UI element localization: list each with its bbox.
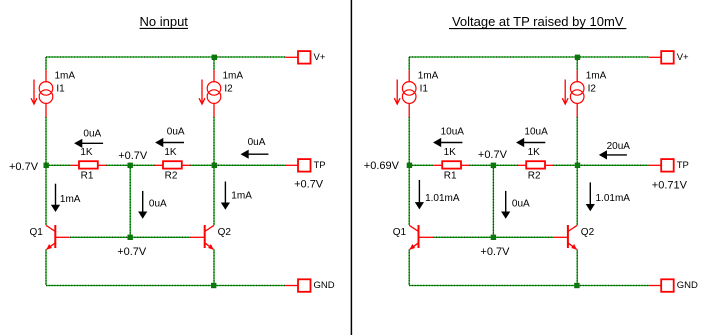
wire right Q1 emitter to GND rail: [408, 250, 410, 286]
current source I1: [394, 70, 416, 117]
svg-text:0uA: 0uA: [149, 199, 167, 210]
wire left TP node to base rail: [129, 165, 131, 237]
svg-text:1.01mA: 1.01mA: [596, 193, 631, 204]
svg-text:Q2: Q2: [218, 227, 232, 238]
wire right I2 to Q2 collector: [576, 117, 578, 225]
svg-text:20uA: 20uA: [607, 141, 631, 152]
current arrow left Q1 collector: [51, 184, 60, 212]
resistor R2: [155, 161, 191, 168]
svg-text:R2: R2: [528, 171, 541, 182]
wire right node to R1: [409, 164, 434, 166]
wire right I2 top: [576, 57, 578, 70]
current source I2: [199, 70, 221, 117]
node left base rail: [128, 235, 133, 240]
svg-text:1K: 1K: [80, 147, 93, 158]
terminal TP: [649, 159, 674, 172]
transistor Q1: [46, 225, 70, 250]
terminal GND: [286, 279, 311, 292]
terminal V+: [286, 51, 311, 64]
svg-text:TP: TP: [314, 160, 326, 171]
svg-text:+0.7V: +0.7V: [117, 246, 147, 258]
svg-text:1mA: 1mA: [55, 70, 76, 81]
svg-text:0uA: 0uA: [248, 137, 266, 148]
svg-text:1.01mA: 1.01mA: [425, 193, 460, 204]
svg-text:I2: I2: [224, 83, 233, 94]
svg-text:1mA: 1mA: [223, 70, 244, 81]
terminal TP: [286, 159, 311, 172]
svg-text:Voltage at TP raised by 10mV: Voltage at TP raised by 10mV: [452, 14, 624, 29]
node left TP rail / I2 branch: [212, 163, 217, 168]
svg-text:I1: I1: [420, 83, 429, 94]
svg-text:+0.7V: +0.7V: [478, 149, 508, 161]
svg-text:0uA: 0uA: [512, 199, 530, 210]
svg-text:+0.69V: +0.69V: [364, 160, 400, 172]
svg-text:10uA: 10uA: [524, 126, 548, 137]
svg-text:1K: 1K: [164, 147, 177, 158]
wire right R2 to TP: [553, 164, 649, 166]
svg-text:+0.71V: +0.71V: [652, 180, 688, 192]
wire right I1 to Q1 collector: [408, 117, 410, 225]
svg-text:Q1: Q1: [30, 227, 44, 238]
wire left I2 to Q2 collector: [213, 117, 215, 225]
node right base rail: [491, 235, 496, 240]
wire right TP node to base rail: [492, 165, 494, 237]
node left left rail / R1: [44, 163, 49, 168]
wire right R1 to R2: [469, 164, 518, 166]
wire right base rail: [433, 236, 554, 238]
resistor R2: [518, 161, 554, 168]
wire left Q1 emitter to GND rail: [45, 250, 47, 286]
wire left I1 to Q1 collector: [45, 117, 47, 225]
wire V+ rail right: [409, 56, 649, 58]
resistor R1: [71, 161, 107, 168]
current arrow left through R1: [74, 139, 103, 148]
svg-text:1K: 1K: [444, 147, 457, 158]
node right R1/R2 midpoint: [491, 163, 496, 168]
wire left R1 to R2: [106, 164, 155, 166]
svg-text:+0.7V: +0.7V: [9, 161, 39, 173]
transistor Q2: [190, 225, 214, 250]
node right GND rail / Q2 emitter: [574, 283, 579, 288]
svg-text:TP: TP: [677, 160, 689, 171]
current arrow right Q1 collector: [415, 180, 424, 210]
wire right Q2 emitter to GND rail: [576, 250, 578, 286]
current arrow right through R2: [516, 138, 545, 147]
transistor Q2: [553, 225, 577, 250]
svg-text:+0.7V: +0.7V: [480, 246, 510, 258]
svg-text:1mA: 1mA: [586, 70, 607, 81]
wire left Q2 emitter to GND rail: [213, 250, 215, 286]
current arrow left Q2 collector: [221, 182, 230, 210]
svg-text:0uA: 0uA: [167, 126, 185, 137]
svg-text:10uA: 10uA: [441, 126, 465, 137]
wire left node to R1: [46, 164, 71, 166]
svg-text:+0.7V: +0.7V: [118, 150, 148, 162]
node left V+ rail / I2: [212, 55, 217, 60]
current arrow right into TP: [599, 150, 627, 159]
svg-text:0uA: 0uA: [83, 129, 101, 140]
node right TP rail / I2 branch: [575, 163, 580, 168]
current arrow right Q2 collector: [586, 182, 595, 211]
svg-text:V+: V+: [677, 52, 689, 63]
svg-text:R1: R1: [444, 171, 457, 182]
divider line between circuits: [350, 0, 352, 335]
svg-text:Q1: Q1: [393, 227, 407, 238]
svg-text:No input: No input: [139, 14, 188, 29]
svg-text:R2: R2: [165, 171, 178, 182]
wire left I1 top: [45, 57, 47, 70]
svg-text:I1: I1: [56, 83, 65, 94]
wire right GND rail: [409, 285, 649, 287]
current arrow right through R1: [433, 138, 462, 147]
svg-text:1mA: 1mA: [418, 70, 439, 81]
svg-text:GND: GND: [677, 280, 698, 291]
wire left I2 top: [213, 57, 215, 70]
transistor Q1: [409, 225, 433, 250]
wire left R2 to TP: [190, 164, 286, 166]
current source I1: [31, 70, 53, 117]
node right left rail / R1: [407, 163, 412, 168]
svg-text:V+: V+: [314, 52, 326, 63]
node right V+ rail / I2: [575, 55, 580, 60]
current arrow left through R2: [155, 138, 184, 147]
current source I2: [562, 70, 584, 117]
svg-text:1mA: 1mA: [60, 194, 81, 205]
node left GND rail / Q2 emitter: [211, 283, 216, 288]
svg-text:I2: I2: [588, 83, 597, 94]
svg-text:1mA: 1mA: [231, 191, 252, 202]
svg-text:Q2: Q2: [581, 227, 595, 238]
current arrow left base node: [138, 191, 147, 219]
node left R1/R2 midpoint: [128, 163, 133, 168]
current arrow right base node: [501, 191, 510, 219]
wire left base rail: [70, 236, 191, 238]
wire V+ rail left: [46, 56, 286, 58]
terminal V+: [649, 51, 674, 64]
resistor R1: [434, 161, 470, 168]
svg-text:GND: GND: [314, 280, 335, 291]
terminal GND: [649, 279, 674, 292]
svg-text:+0.7V: +0.7V: [294, 179, 324, 191]
wire left GND rail: [46, 285, 286, 287]
svg-text:R1: R1: [81, 171, 94, 182]
current arrow left into TP: [241, 150, 269, 159]
wire right I1 top: [408, 57, 410, 70]
svg-text:1K: 1K: [528, 147, 541, 158]
